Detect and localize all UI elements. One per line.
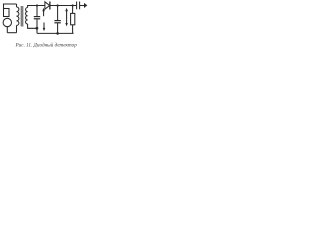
svg-text:Рис. 11. Диодный детектор: Рис. 11. Диодный детектор xyxy=(15,41,78,48)
